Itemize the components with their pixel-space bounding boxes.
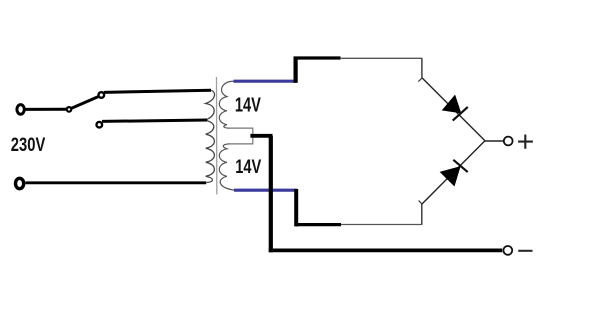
svg-text:14V: 14V	[235, 156, 261, 178]
wire diagonal to diode D2	[422, 141, 485, 204]
svg-text:230V: 230V	[11, 135, 46, 156]
wire top rail thin	[340, 57, 422, 59]
diode D2 triangle	[441, 167, 460, 186]
blue wire secondary top lead	[234, 80, 297, 83]
switch contact B	[97, 122, 103, 128]
wire corner vertical (bottom right)	[421, 204, 423, 225]
diode D2 cathode bar	[453, 160, 467, 172]
switch pivot circle	[67, 107, 72, 112]
wire T2 to transformer primary bottom	[26, 181, 207, 184]
center tap stub wire	[250, 134, 272, 138]
corner tick (top)	[418, 78, 422, 82]
corner tick (bottom)	[419, 201, 422, 204]
transformer secondary winding bottom (14V)	[219, 144, 234, 190]
minus sign	[518, 250, 532, 252]
diode D1 triangle	[443, 96, 461, 113]
transformer primary winding	[206, 90, 215, 182]
output terminal - circle	[503, 246, 512, 255]
switch arm SW1	[72, 97, 99, 109]
transformer core	[216, 77, 218, 195]
wire contact A to transformer primary top	[104, 90, 211, 92]
center tap vertical wire	[269, 136, 273, 252]
bottom rail wire to - terminal	[269, 248, 502, 252]
blue wire secondary bottom lead	[234, 189, 297, 192]
wire corner vertical (top right)	[421, 58, 423, 78]
secondary center-tap bracket	[229, 128, 253, 144]
transformer secondary winding top (14V)	[219, 81, 233, 128]
diode D1 cathode bar	[453, 107, 468, 121]
plus sign	[518, 135, 533, 149]
wire T1 to switch pivot	[26, 108, 67, 111]
wire top rail thick	[294, 56, 341, 59]
wire diagonal to diode D1	[422, 78, 485, 141]
wire lower rail thick	[296, 223, 341, 226]
wire vertical up from blue top	[294, 57, 298, 83]
wire lower rail thin	[341, 224, 422, 226]
output terminal + circle	[504, 137, 513, 146]
wire contact B to transformer primary tap	[102, 120, 208, 121]
svg-text:14V: 14V	[235, 95, 261, 117]
wire vertical down from blue bottom	[294, 189, 298, 226]
terminal T1 (230V input top)	[17, 105, 24, 115]
terminal T2 (230V input bottom)	[16, 178, 24, 188]
wire junction to + terminal	[485, 140, 504, 142]
switch contact A	[99, 92, 105, 98]
